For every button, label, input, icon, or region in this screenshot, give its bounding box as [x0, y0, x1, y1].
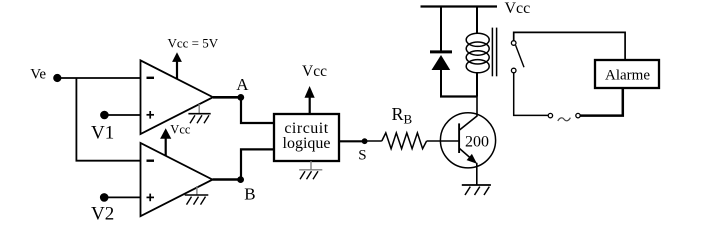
svg-text:B: B — [244, 185, 255, 204]
alarm box — [595, 60, 659, 88]
node Ve junction dot — [53, 74, 61, 82]
wire AC source to alarm box bottom — [580, 88, 623, 116]
Vcc rail top — [421, 5, 498, 7]
svg-text:logique: logique — [283, 135, 331, 152]
transistor Q1 emitter with arrow — [460, 149, 477, 163]
node A dot — [237, 94, 244, 101]
node B dot — [237, 176, 244, 183]
AC source left terminal circle — [548, 113, 552, 117]
svg-text:V2: V2 — [91, 204, 114, 225]
logic box U3 "circuit logique" — [274, 114, 339, 161]
node S dot — [362, 138, 368, 144]
transistor Q1 collector — [460, 97, 478, 131]
wire node B to logic box lower input — [241, 149, 274, 179]
transistor Q1 base bar — [458, 123, 460, 153]
power arrow on U2 — [165, 138, 167, 155]
AC source tilde symbol — [558, 118, 571, 121]
op-amp U1 minus sign — [147, 77, 155, 79]
svg-text:S: S — [358, 148, 366, 164]
op-amp U2 minus sign — [147, 159, 155, 161]
svg-text:Vcc = 5V: Vcc = 5V — [168, 36, 219, 51]
op-amp U2 (comparator) triangle — [141, 143, 213, 216]
ground of U2 — [196, 186, 198, 195]
wire V2 to op-amp U2 non-inverting input — [104, 196, 141, 198]
relay switch blade — [516, 45, 524, 67]
svg-text:Alarme: Alarme — [605, 67, 650, 83]
ground of U1 — [198, 104, 200, 114]
ground of logic box — [310, 161, 312, 170]
resistor RB zigzag — [382, 133, 427, 149]
diode D1 (flyback) cathode bar — [430, 50, 452, 53]
wire resistor RB to transistor Q1 base — [427, 140, 459, 142]
node V2 dot — [100, 193, 109, 202]
power arrow on logic box — [309, 97, 311, 114]
wire coil bottom to junction — [476, 73, 478, 97]
wire V1 to op-amp U1 non-inverting input — [104, 114, 141, 116]
diode D1 triangle — [432, 55, 451, 70]
op-amp U1 plus sign — [147, 114, 155, 116]
svg-text:200: 200 — [465, 133, 489, 150]
wire switch bottom to AC source — [514, 73, 549, 116]
svg-text:Vcc: Vcc — [505, 0, 531, 17]
svg-text:R: R — [392, 104, 404, 124]
svg-text:A: A — [236, 75, 249, 94]
wire logic box output to node S — [339, 140, 365, 142]
wire Ve to op-amp U1 inverting input — [57, 77, 141, 79]
wire rail to relay coil L1 — [476, 7, 478, 34]
op-amp U2 plus sign — [147, 196, 155, 198]
relay switch bottom contact circle — [511, 68, 516, 73]
svg-text:B: B — [404, 112, 413, 127]
relay core lines — [491, 28, 493, 77]
wire rail to diode D1 cathode — [440, 7, 442, 51]
wire node S to resistor RB — [365, 140, 382, 142]
wire diode D1 anode down to junction — [440, 70, 442, 97]
AC source right terminal circle — [576, 113, 580, 117]
wire U2 output to node B — [213, 178, 242, 181]
svg-text:Vcc: Vcc — [302, 63, 327, 80]
wire node A to logic box upper input — [241, 97, 274, 123]
relay coil L1 loops — [466, 33, 489, 46]
node V1 dot — [100, 111, 109, 120]
power arrow on U1 — [176, 62, 178, 80]
wire branch Ve down to op-amp U2 — [76, 78, 140, 161]
op-amp U1 (comparator) triangle — [141, 60, 214, 134]
transistor Q1 circle — [440, 113, 495, 168]
svg-text:V1: V1 — [91, 122, 114, 143]
wire U1 output to node A — [213, 96, 241, 99]
junction wire diode/coil to collector — [440, 95, 477, 97]
svg-text:Ve: Ve — [30, 67, 46, 83]
wire switch top to alarm loop — [514, 32, 625, 60]
ground of Q1 emitter — [462, 184, 491, 186]
relay switch top contact circle — [511, 41, 516, 46]
svg-text:Vcc: Vcc — [170, 123, 191, 137]
